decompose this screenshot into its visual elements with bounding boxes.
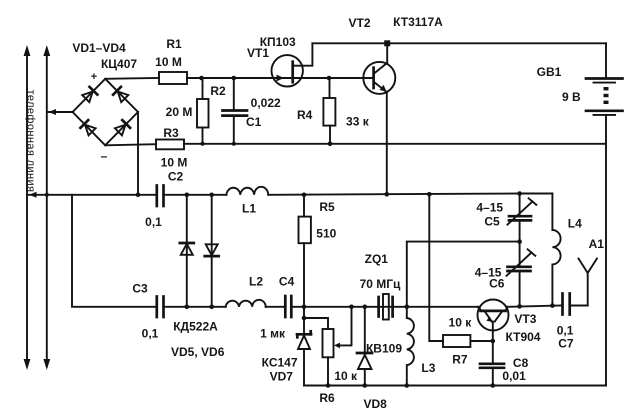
svg-text:0,022: 0,022 [251, 96, 281, 110]
wire: top rail R1 to VT2 base (node gate line) [187, 77, 373, 79]
svg-text:VT1: VT1 [247, 46, 269, 60]
crystal ZQ1 body rectangle [383, 294, 389, 320]
svg-text:L2: L2 [249, 275, 263, 289]
svg-text:С2: С2 [168, 170, 184, 184]
svg-text:С8: С8 [513, 356, 529, 370]
svg-text:–: – [101, 149, 108, 163]
wire: VD7 branch below lower rail [303, 307, 305, 333]
wire: R5 bottom lead [303, 243, 305, 307]
capacitor C4 left plate [284, 296, 287, 317]
connection arrow on line1 at middle rail [29, 192, 37, 198]
wire: R4 top lead [329, 78, 331, 98]
junction node C1 bottom on minus rail [232, 142, 236, 146]
svg-text:GB1: GB1 [537, 65, 562, 79]
junction node VD5 bottom [185, 305, 190, 310]
battery GB1 bottom lead [605, 115, 607, 144]
svg-text:R3: R3 [163, 126, 179, 140]
svg-text:R1: R1 [166, 37, 182, 51]
wire: VD5 branch vertical [186, 195, 188, 307]
telephone line wire 1 bottom arrow [24, 359, 31, 370]
svg-text:VD1–VD4: VD1–VD4 [72, 41, 126, 55]
junction node L3 top / ZQ1 right [405, 305, 410, 310]
wire: C1 bottom lead [233, 117, 235, 144]
inductor L1 [226, 187, 268, 195]
diode VD6 (pointing down) [205, 244, 219, 256]
C5 upper plate [509, 215, 531, 218]
svg-text:КД522А: КД522А [173, 320, 218, 334]
transistor VT2 circle [363, 62, 395, 94]
svg-text:L1: L1 [242, 202, 256, 216]
wire: middle rail L1 to C5 top [268, 194, 519, 195]
C5 trimmer arrow [508, 202, 533, 225]
VT2 emitter diagonal [374, 82, 387, 92]
junction node C5/C6 midpoint [517, 239, 522, 244]
wire: bridge left vertex to telephone line 2 [48, 111, 73, 113]
junction node bridge-right on middle rail [136, 193, 141, 198]
diode VD2 (top-right arm) [113, 87, 129, 103]
wire: minus rail from R3 to battery bottom [184, 143, 606, 145]
VT3 emitter arrow [486, 316, 492, 322]
wire: R6 bottom lead [327, 357, 329, 385]
wire: lower rail C3 to L2 [164, 306, 226, 308]
wire: VD7 bottom lead to ground rail [303, 349, 305, 386]
wire: left drop from middle rail to C3 [72, 195, 156, 307]
junction node R6 bottom [326, 383, 331, 388]
svg-text:VD8: VD8 [364, 397, 388, 411]
R6 wiper arrow [334, 343, 340, 349]
VT3 base lead segment [478, 307, 482, 311]
junction node VD8 top [363, 305, 368, 310]
junction node R5 top [302, 193, 307, 198]
svg-text:VD7: VD7 [270, 370, 294, 384]
wire: bridge top vertex to R1 [105, 77, 159, 80]
crystal ZQ1 left plate [377, 297, 380, 317]
svg-text:VT2: VT2 [348, 16, 370, 30]
resistor R3 [156, 140, 184, 150]
svg-text:С7: С7 [558, 336, 574, 350]
capacitor C7 right plate [568, 294, 571, 315]
C5 lower lead [519, 220, 521, 241]
junction node R5 bottom / VD7 top [302, 305, 307, 310]
diode VD3 (bottom-left arm) [80, 120, 96, 136]
wire: VT2 emitter down to oscillator rail [386, 92, 388, 194]
junction node R4 bottom on minus rail [328, 142, 333, 147]
wire: VT3 emitter down to C8 [492, 322, 494, 363]
antenna A1 stem [587, 273, 589, 306]
VT2 collector diagonal [374, 43, 387, 73]
VT3 collector exit segment [506, 307, 508, 311]
svg-text:R5: R5 [319, 200, 335, 214]
inductor L4 [552, 194, 560, 306]
VT2 emitter arrow [380, 85, 387, 92]
C5 trimmer arrow T-bar [529, 198, 537, 205]
C6 trimmer arrow T-bar [528, 249, 536, 256]
VT3 emitter diagonal [485, 311, 492, 322]
wire: R7 branch vertical from middle rail [429, 194, 443, 341]
wire: C1 top lead [233, 78, 235, 110]
C6 lower lead [519, 271, 521, 306]
capacitor C3 left plate [155, 297, 158, 318]
diode VD1 (top-left arm) [82, 87, 98, 103]
C5 lower plate [509, 219, 531, 222]
wire: right rail battery minus down to ground rail [605, 144, 607, 386]
wire: C7 to antenna stem [570, 305, 588, 307]
svg-text:L3: L3 [421, 361, 435, 375]
wire: R6 top lead and corner to VD7 line [304, 318, 328, 329]
VT2 base bar [372, 68, 375, 88]
junction node L3 bottom [405, 383, 410, 388]
capacitor C8 top plate [480, 362, 504, 365]
junction node at R4 top [327, 76, 332, 81]
junction node R7 branch top [427, 192, 432, 197]
svg-text:телефонная линия: телефонная линия [25, 90, 37, 193]
junction square at VT2 collector on supply wire [384, 40, 390, 46]
svg-text:0,1: 0,1 [145, 215, 162, 229]
wire: VT3 collector to C7 [507, 306, 562, 307]
svg-text:R7: R7 [452, 353, 468, 367]
wire: R2 bottom lead [202, 128, 204, 144]
varicap VD8 (КВ109) capacitor bar [357, 352, 372, 355]
svg-text:КС147: КС147 [262, 356, 298, 370]
svg-text:0,1: 0,1 [557, 324, 574, 338]
svg-text:С1: С1 [246, 115, 262, 129]
svg-text:70 МГц: 70 МГц [360, 277, 401, 291]
diode VD5 (pointing up) [180, 243, 194, 255]
junction node C6 bottom [517, 304, 522, 309]
junction node C5 top [517, 191, 522, 196]
junction node R6 wiper tap [349, 305, 354, 310]
svg-text:9 В: 9 В [562, 90, 581, 104]
junction node VT2 emitter on middle rail [385, 192, 390, 197]
capacitor C7 left plate [561, 294, 564, 315]
connection arrow on line 2 at y112 [49, 109, 57, 115]
R6 wiper wire [337, 307, 352, 346]
inductor L3 [407, 307, 414, 386]
svg-text:КВ109: КВ109 [366, 342, 402, 356]
VT1 gate arrow [277, 75, 285, 82]
svg-text:A1: A1 [589, 237, 605, 251]
VT3 base bar [481, 310, 506, 313]
trimmer capacitor C5 vertical lead top [519, 194, 521, 216]
wire: VD6 branch vertical [211, 195, 213, 307]
GB1 cell1 short plate [594, 82, 616, 84]
junction node VD8 bottom [363, 383, 368, 388]
GB1 cell1 long plate [586, 77, 623, 80]
diode bridge diamond outline [73, 79, 138, 146]
capacitor C1 bottom plate [223, 114, 248, 117]
wire: top supply wire to battery [312, 42, 606, 44]
svg-text:510: 510 [316, 227, 336, 241]
svg-text:10 М: 10 М [161, 156, 188, 170]
inductor L2 [226, 300, 266, 307]
junction node R6 top tap [302, 316, 307, 321]
GB1 dash mark 3 [604, 101, 609, 104]
resistor R7 [443, 335, 470, 347]
resistor R5 [299, 217, 311, 244]
junction node C8 bottom [491, 383, 496, 388]
svg-text:4–15: 4–15 [476, 200, 503, 214]
C6 lower plate [508, 270, 531, 273]
svg-text:ZQ1: ZQ1 [365, 252, 389, 266]
capacitor C1 top plate [223, 109, 248, 112]
capacitor C3 right plate [162, 297, 165, 318]
telephone line wire 2 (right vertical) [46, 50, 48, 366]
svg-text:R2: R2 [210, 84, 226, 98]
capacitor C8 bottom plate [480, 366, 504, 369]
telephone line wire 2 top arrow [43, 45, 50, 56]
trimmer capacitor C6 vertical lead top [519, 242, 521, 266]
svg-text:VT3: VT3 [514, 312, 536, 326]
wire: L2 to C4 [266, 306, 285, 308]
svg-text:10 к: 10 к [449, 316, 473, 330]
crystal ZQ1 right plate [391, 297, 394, 317]
svg-text:33 к: 33 к [346, 115, 370, 129]
zener diode VD7 (КС147) [297, 331, 311, 349]
wire: VD8 bottom lead [364, 369, 366, 386]
junction node L4 bottom [550, 303, 555, 308]
resistor R4 [323, 98, 335, 126]
junction node at R2 top [199, 76, 204, 81]
junction node emitter/R7 [491, 339, 496, 344]
svg-text:20 М: 20 М [166, 105, 193, 119]
svg-text:L4: L4 [568, 216, 582, 230]
junction node VD5 top [185, 193, 190, 198]
varicap VD8 diode triangle [358, 355, 372, 369]
GB1 dash mark 2 [604, 94, 609, 97]
wire: main middle rail from telephone line to C2 [27, 194, 156, 196]
wire: R5 top lead [303, 195, 305, 217]
telephone line wire 2 bottom arrow [43, 359, 50, 370]
wire: VT1 drain tap up to top supply wire [293, 43, 313, 65]
wire: R7 right lead to VT3 emitter [470, 340, 492, 342]
svg-text:0,01: 0,01 [502, 369, 526, 383]
transistor VT1 circle [272, 55, 303, 86]
svg-text:10 М: 10 М [155, 55, 182, 69]
svg-text:R4: R4 [297, 108, 313, 122]
C6 upper plate [508, 265, 531, 268]
GB1 dash mark 1 [604, 87, 609, 90]
junction node VD6 bottom [209, 305, 214, 310]
svg-text:КЦ407: КЦ407 [101, 57, 137, 71]
wire: lower rail C4 to VT3 base [291, 306, 480, 308]
GB1 cell2 short plate [594, 114, 616, 116]
antenna A1 V symbol [579, 259, 597, 274]
wire: middle rail C2 to L1 [164, 194, 227, 196]
VT3 collector diagonal [495, 312, 502, 322]
wire: R4 bottom lead [329, 126, 331, 144]
VT1 channel bar [291, 62, 294, 82]
diode VD4 (bottom-right arm) [115, 120, 131, 136]
capacitor C2 right plate [162, 186, 165, 207]
svg-text:1 мк: 1 мк [260, 327, 286, 341]
wire: feedback line from C5/C6 midpoint down to crystal node [407, 242, 520, 307]
potentiometer R6 body [323, 329, 334, 357]
svg-text:С6: С6 [489, 277, 505, 291]
wire: bridge bottom vertex to R3 [105, 144, 156, 145]
wire: VD8 top lead [364, 307, 366, 352]
junction node VD6 top [209, 193, 214, 198]
wire: C5-top to L4 corner [520, 193, 553, 195]
telephone line wire 1 (left vertical) [26, 50, 28, 366]
svg-text:+: + [91, 71, 97, 83]
telephone line wire 1 top arrow [24, 45, 31, 56]
svg-text:0,1: 0,1 [142, 327, 159, 341]
transistor VT3 circle [478, 300, 509, 331]
C6 trimmer arrow [507, 253, 532, 276]
wire: R2 top lead [202, 78, 204, 99]
GB1 cell2 long plate [586, 109, 623, 112]
svg-text:КТ3117А: КТ3117А [393, 15, 443, 29]
junction node at C1 top [232, 76, 237, 81]
battery GB1 top lead [605, 43, 607, 78]
svg-text:КТ904: КТ904 [506, 330, 541, 344]
capacitor C4 right plate [290, 296, 293, 317]
wire: C8 bottom lead [492, 368, 494, 386]
wire: bridge right vertex down to middle rail [137, 112, 139, 195]
wire: bottom ground rail [304, 385, 606, 387]
svg-text:VD5, VD6: VD5, VD6 [171, 345, 225, 359]
svg-text:R6: R6 [319, 391, 335, 405]
junction node R2 bottom on minus rail [201, 142, 205, 146]
svg-text:С5: С5 [484, 215, 500, 229]
svg-text:С4: С4 [279, 275, 295, 289]
svg-text:10 к: 10 к [334, 369, 358, 383]
capacitor C2 left plate [155, 186, 158, 207]
resistor R1 [159, 72, 187, 84]
junction node middle rail at line 2 [45, 193, 49, 197]
resistor R2 [197, 99, 209, 128]
svg-text:С3: С3 [132, 282, 148, 296]
